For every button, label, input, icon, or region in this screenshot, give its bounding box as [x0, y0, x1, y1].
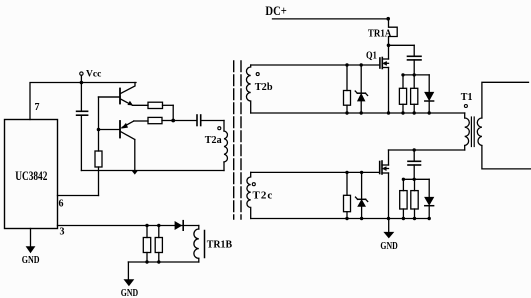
svg-text:TR1B: TR1B	[207, 239, 232, 251]
svg-text:GND: GND	[121, 287, 139, 298]
svg-text:GND: GND	[22, 254, 40, 265]
svg-text:T1: T1	[461, 92, 473, 104]
svg-text:T2a: T2a	[205, 135, 223, 146]
svg-text:Vcc: Vcc	[86, 70, 101, 80]
svg-text:GND: GND	[380, 240, 398, 251]
svg-text:T2c: T2c	[253, 190, 274, 202]
svg-text:6: 6	[59, 199, 64, 210]
svg-text:UC3842: UC3842	[15, 170, 47, 184]
svg-text:Q1: Q1	[366, 49, 377, 61]
svg-text:TR1A: TR1A	[368, 28, 392, 40]
svg-text:T2b: T2b	[255, 81, 273, 93]
svg-text:3: 3	[60, 227, 65, 238]
svg-text:DC+: DC+	[265, 4, 286, 18]
svg-text:7: 7	[35, 102, 40, 113]
